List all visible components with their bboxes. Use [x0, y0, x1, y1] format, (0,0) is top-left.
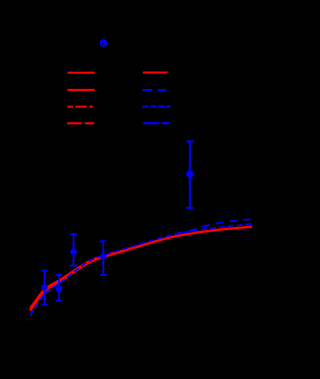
- data point P4: blue marker with error bar: [100, 241, 107, 275]
- data point P5: blue marker with error bar: [186, 141, 193, 208]
- legend marker: blue data dot: [100, 39, 108, 47]
- data point P1: blue marker with error bar: [41, 271, 48, 305]
- curve: main red solid: [30, 227, 252, 311]
- legend line L1: red solid: [68, 72, 95, 74]
- data point P2: blue marker with error bar: [56, 275, 63, 301]
- legend line R2: blue dashed: [143, 89, 167, 91]
- data point P3: blue marker with error bar: [70, 234, 77, 266]
- curve: secondary red strand (upper): [30, 240, 160, 308]
- legend line L2: red solid: [68, 89, 95, 91]
- curve: blue dashed separated branch: [172, 219, 250, 235]
- legend line L3: red dash-dot: [68, 106, 93, 108]
- legend line R4: blue dashed: [143, 122, 170, 124]
- legend line R1: red solid: [143, 71, 168, 73]
- curve: blue dashed (overlapping band): [30, 224, 252, 316]
- legend line R3: blue short-dashed: [142, 106, 170, 108]
- legend line L4: red dashed: [67, 122, 94, 124]
